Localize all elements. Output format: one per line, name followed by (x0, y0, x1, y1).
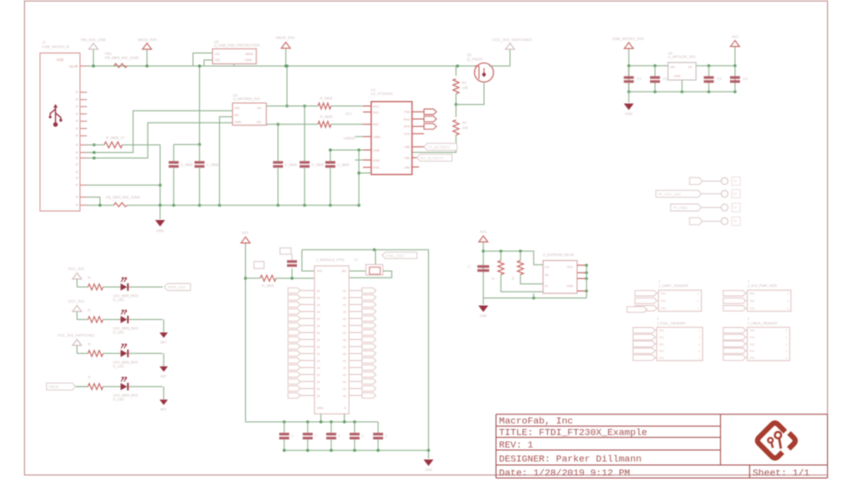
svg-text:C_0805: C_0805 (312, 163, 324, 167)
svg-text:RXD: RXD (404, 117, 411, 121)
svg-text:GND: GND (235, 120, 243, 124)
svg-text:P: P (76, 105, 78, 109)
svg-text:10K: 10K (462, 126, 469, 130)
svg-text:GND: GND (317, 406, 323, 410)
svg-text:G: G (344, 406, 346, 410)
svg-text:GND: GND (480, 314, 488, 318)
svg-text:C_0805: C_0805 (207, 163, 219, 167)
svg-text:D_LED: D_LED (113, 298, 124, 302)
svg-text:VCC_3V3_SWITCHED: VCC_3V3_SWITCHED (492, 38, 532, 42)
svg-text:J: J (657, 317, 659, 321)
svg-text:U3: U3 (214, 40, 219, 44)
svg-text:TP: TP (733, 206, 737, 210)
svg-text:PIN: PIN (659, 336, 664, 340)
svg-text:CB2: CB2 (404, 165, 410, 169)
svg-text:NET: NET (161, 374, 167, 378)
svg-text:U4: U4 (668, 52, 673, 56)
svg-text:R: R (512, 277, 515, 281)
svg-text:P: P (76, 98, 78, 102)
svg-text:P: P (76, 170, 78, 174)
svg-text:P: P (76, 91, 78, 95)
svg-text:PIN: PIN (661, 292, 666, 296)
svg-text:MacroFab, Inc: MacroFab, Inc (499, 416, 573, 427)
svg-text:R2: R2 (462, 121, 467, 125)
svg-text:FB_0805_600_JUNK: FB_0805_600_JUNK (105, 56, 140, 60)
svg-text:C: C (338, 434, 341, 438)
svg-text:RTS: RTS (404, 125, 410, 129)
svg-text:J_CBUS_HEADER: J_CBUS_HEADER (747, 321, 777, 325)
svg-text:3V3: 3V3 (317, 269, 322, 273)
svg-text:P: P (76, 196, 78, 200)
svg-text:C: C (468, 265, 471, 269)
svg-text:VCC: VCC (567, 265, 573, 269)
svg-text:J_UART_HEADER: J_UART_HEADER (659, 284, 689, 288)
svg-text:PIN: PIN (750, 299, 755, 303)
svg-text:Sheet: 1/1: Sheet: 1/1 (753, 468, 810, 479)
svg-text:EN: EN (235, 113, 239, 117)
svg-text:3V3: 3V3 (732, 35, 739, 39)
svg-text:J_MODULE_FTDI: J_MODULE_FTDI (316, 258, 344, 262)
svg-text:PIN: PIN (750, 329, 755, 333)
svg-text:USB+: USB+ (373, 135, 381, 139)
svg-text:P: P (76, 156, 78, 160)
svg-text:U1: U1 (371, 88, 376, 92)
svg-text:U_EEPROM_93C46: U_EEPROM_93C46 (543, 253, 574, 257)
svg-text:TP: TP (733, 192, 737, 196)
svg-text:U_USB_ESD_PROTECTION: U_USB_ESD_PROTECTION (214, 44, 260, 48)
svg-text:U_MIC5504_3V3: U_MIC5504_3V3 (233, 97, 260, 101)
svg-text:C: C (385, 434, 388, 438)
svg-text:R_0805_27: R_0805_27 (106, 136, 125, 140)
svg-text:USB_MICRO_5V0: USB_MICRO_5V0 (612, 37, 643, 41)
svg-text:GND: GND (373, 158, 381, 162)
svg-text:PIN: PIN (750, 292, 755, 296)
svg-text:GND: GND (674, 74, 680, 78)
svg-text:CTS: CTS (404, 132, 410, 136)
svg-text:VBUS_5V0: VBUS_5V0 (275, 36, 294, 40)
svg-text:PIN: PIN (659, 342, 664, 346)
svg-text:C1: C1 (637, 77, 641, 81)
svg-text:GND: GND (425, 468, 433, 472)
svg-text:PIN: PIN (750, 307, 755, 311)
svg-text:U2: U2 (233, 94, 238, 98)
svg-text:Q_PMOS: Q_PMOS (467, 58, 483, 62)
svg-text:VCC: VCC (345, 112, 352, 116)
svg-text:3V3: 3V3 (373, 110, 379, 114)
svg-text:Y1: Y1 (354, 258, 358, 262)
svg-text:VIN: VIN (235, 106, 240, 110)
svg-text:GND: GND (156, 229, 164, 233)
svg-text:C: C (362, 434, 365, 438)
svg-text:C: C (315, 434, 318, 438)
svg-text:R_0805: R_0805 (262, 284, 274, 288)
svg-text:IO1: IO1 (215, 52, 220, 56)
svg-text:VO: VO (257, 106, 262, 110)
svg-text:NET: NET (161, 341, 167, 345)
svg-text:TP: TP (733, 180, 737, 184)
svg-text:FB_0805_600_JUNK: FB_0805_600_JUNK (106, 196, 141, 200)
svg-text:VCC_3V3: VCC_3V3 (68, 300, 84, 304)
svg-text:USB: USB (57, 58, 65, 62)
svg-text:C4: C4 (743, 77, 747, 81)
svg-text:TX_ACTIVITY: TX_ACTIVITY (428, 145, 451, 149)
svg-text:J_FULL_HEADER: J_FULL_HEADER (657, 321, 686, 325)
svg-text:USB-: USB- (373, 148, 380, 152)
svg-text:R: R (88, 376, 91, 380)
svg-text:D_LED: D_LED (113, 331, 124, 335)
svg-text:PIN: PIN (661, 299, 666, 303)
svg-text:P: P (76, 134, 78, 138)
svg-text:C_0805: C_0805 (181, 163, 193, 167)
svg-text:R: R (88, 276, 91, 280)
svg-text:REV: 1: REV: 1 (499, 440, 534, 451)
svg-text:RST: RST (373, 123, 379, 127)
svg-text:R_0805: R_0805 (320, 97, 332, 101)
svg-text:P: P (76, 120, 78, 124)
svg-text:CBUS: CBUS (49, 385, 60, 389)
svg-text:D_LED: D_LED (113, 398, 124, 402)
svg-text:XTAL_OSC: XTAL_OSC (386, 254, 405, 258)
svg-text:DESIGNER: Parker Dillmann: DESIGNER: Parker Dillmann (499, 454, 642, 465)
svg-text:PIN: PIN (750, 342, 755, 346)
svg-text:R1: R1 (462, 81, 467, 85)
svg-text:C2: C2 (663, 77, 667, 81)
svg-text:GND: GND (625, 112, 633, 116)
svg-text:P: P (76, 184, 78, 188)
svg-text:PIN: PIN (750, 349, 755, 353)
svg-text:10K: 10K (462, 86, 469, 90)
svg-text:R_0805: R_0805 (320, 115, 332, 119)
svg-text:Date: 1/28/2019 9:12 PM: Date: 1/28/2019 9:12 PM (499, 468, 630, 479)
svg-text:CB1: CB1 (404, 156, 410, 160)
svg-text:P: P (76, 112, 78, 116)
svg-text:GND: GND (245, 58, 253, 62)
svg-text:VBUS: VBUS (245, 52, 253, 56)
svg-text:R: R (88, 342, 91, 346)
svg-text:R: R (88, 309, 91, 313)
svg-text:J1: J1 (42, 41, 46, 45)
svg-text:TP: TP (733, 220, 737, 224)
svg-text:VBUS_5V0: VBUS_5V0 (137, 38, 156, 42)
svg-text:FB1: FB1 (105, 52, 112, 56)
svg-text:D_LED: D_LED (113, 364, 124, 368)
svg-text:TP_VCC_3V3: TP_VCC_3V3 (658, 192, 681, 196)
svg-text:SK: SK (545, 273, 549, 277)
svg-text:3V3: 3V3 (242, 231, 248, 235)
svg-text:C: C (291, 434, 294, 438)
svg-text:P: P (76, 176, 78, 180)
svg-text:NET: NET (161, 408, 167, 412)
svg-text:P: P (76, 143, 78, 147)
svg-text:PIN: PIN (750, 356, 755, 360)
svg-text:RX_ACTIVITY: RX_ACTIVITY (421, 156, 445, 160)
svg-text:P: P (76, 151, 78, 155)
svg-text:VCC_3V3_SWITCHED: VCC_3V3_SWITCHED (57, 333, 95, 337)
svg-text:PWR_LED: PWR_LED (168, 286, 186, 290)
svg-text:J: J (659, 280, 661, 284)
svg-text:USB_MICRO_B: USB_MICRO_B (42, 45, 70, 49)
svg-text:PIN: PIN (659, 329, 664, 333)
svg-text:DI: DI (545, 284, 548, 288)
svg-text:C_0805: C_0805 (285, 163, 297, 167)
svg-text:P: P (76, 127, 78, 131)
svg-text:J_3V3_PWR_HDR: J_3V3_PWR_HDR (747, 284, 777, 288)
svg-text:TXD: TXD (404, 110, 411, 114)
svg-text:3V3: 3V3 (480, 230, 486, 234)
svg-text:R: R (492, 277, 495, 281)
svg-text:TITLE: FTDI_FT230X_Example: TITLE: FTDI_FT230X_Example (499, 427, 648, 438)
svg-text:VCC_3V3: VCC_3V3 (68, 267, 84, 271)
svg-text:VIN: VIN (670, 65, 675, 69)
svg-text:PIN: PIN (750, 336, 755, 340)
svg-text:P: P (76, 204, 78, 208)
svg-text:J: J (747, 280, 749, 284)
svg-text:USBDM: USBDM (343, 137, 355, 141)
svg-text:CS: CS (545, 265, 549, 269)
svg-text:TP_GND: TP_GND (673, 206, 688, 210)
svg-text:PIN: PIN (661, 307, 666, 311)
svg-text:C3: C3 (717, 77, 721, 81)
svg-text:Q1: Q1 (467, 53, 472, 57)
svg-text:PIN: PIN (659, 356, 664, 360)
svg-text:C_0805: C_0805 (337, 163, 349, 167)
svg-text:P: P (76, 64, 78, 68)
svg-text:IO2: IO2 (215, 58, 220, 62)
svg-text:PIN: PIN (659, 349, 664, 353)
svg-text:GND: GND (567, 284, 573, 288)
svg-text:U_AP2112K_3V3: U_AP2112K_3V3 (668, 55, 695, 59)
svg-text:EN: EN (342, 269, 346, 273)
svg-text:U1_FT230XS: U1_FT230XS (371, 92, 393, 96)
svg-text:P: P (76, 163, 78, 167)
svg-text:VCC: VCC (373, 104, 380, 108)
svg-text:VIN_5V0_USB: VIN_5V0_USB (80, 38, 106, 42)
svg-text:J: J (747, 317, 749, 321)
svg-text:GN2: GN2 (373, 166, 380, 170)
svg-text:CB0: CB0 (404, 145, 410, 149)
